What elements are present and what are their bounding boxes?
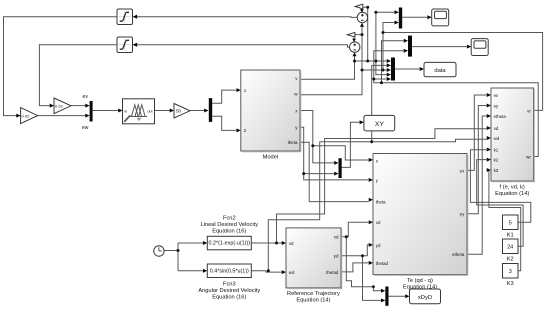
svg-text:ew: ew bbox=[82, 125, 89, 131]
svg-text:0.2*(1-exp(-u(1))): 0.2*(1-exp(-u(1))) bbox=[209, 241, 251, 247]
svg-text:vd: vd bbox=[494, 126, 499, 131]
svg-text:vr: vr bbox=[527, 108, 531, 113]
svg-text:ex: ex bbox=[494, 93, 499, 98]
svg-text:thetad: thetad bbox=[326, 270, 339, 275]
svg-text:wr: wr bbox=[526, 154, 531, 159]
svg-text:yd: yd bbox=[376, 243, 381, 248]
svg-text:K1: K1 bbox=[507, 232, 514, 238]
svg-text:thetad: thetad bbox=[376, 261, 389, 266]
svg-text:xDyD: xDyD bbox=[418, 295, 432, 301]
svg-text:0.02: 0.02 bbox=[22, 113, 31, 118]
svg-text:data: data bbox=[434, 68, 446, 74]
svg-text:XY: XY bbox=[375, 121, 385, 128]
svg-text:50: 50 bbox=[176, 109, 182, 114]
svg-text:Fcn3: Fcn3 bbox=[223, 281, 236, 287]
svg-text:Equation (14): Equation (14) bbox=[296, 297, 330, 303]
svg-text:xd: xd bbox=[334, 235, 339, 240]
svg-text:yd: yd bbox=[334, 254, 339, 259]
svg-text:K2: K2 bbox=[507, 256, 514, 262]
svg-text:ex: ex bbox=[460, 169, 465, 174]
svg-text:xd: xd bbox=[376, 220, 381, 225]
svg-text:K3: K3 bbox=[507, 281, 514, 287]
svg-text:theta: theta bbox=[376, 200, 386, 205]
svg-text:3: 3 bbox=[509, 269, 512, 275]
svg-text:etheta: etheta bbox=[452, 252, 465, 257]
svg-text:Equation (14): Equation (14) bbox=[495, 191, 529, 197]
svg-text:24: 24 bbox=[507, 245, 513, 251]
svg-text:f (e, vd, k): f (e, vd, k) bbox=[500, 184, 525, 190]
svg-text:5: 5 bbox=[509, 221, 512, 227]
svg-text:ey: ey bbox=[460, 212, 465, 217]
svg-text:Equation (16): Equation (16) bbox=[212, 295, 246, 301]
svg-text:vd: vd bbox=[289, 241, 294, 246]
svg-text:Reference Trajectory: Reference Trajectory bbox=[287, 291, 340, 297]
svg-text:theta: theta bbox=[288, 140, 298, 145]
svg-text:k3: k3 bbox=[494, 168, 499, 173]
svg-text:ey: ey bbox=[494, 103, 499, 108]
svg-text:0.02: 0.02 bbox=[55, 104, 64, 109]
svg-text:wd: wd bbox=[494, 136, 500, 141]
svg-text:out: out bbox=[147, 110, 153, 114]
svg-text:Fcn2: Fcn2 bbox=[223, 215, 236, 221]
svg-text:k2: k2 bbox=[494, 157, 499, 162]
svg-text:Equation (16): Equation (16) bbox=[212, 229, 246, 235]
svg-text:Model: Model bbox=[263, 154, 279, 160]
svg-text:in: in bbox=[124, 110, 127, 114]
svg-text:k1: k1 bbox=[494, 147, 499, 152]
svg-text:Te (qd - q): Te (qd - q) bbox=[407, 278, 433, 284]
svg-text:Angular Desired Velocity: Angular Desired Velocity bbox=[198, 288, 260, 294]
svg-text:0.4*sin(0.5*u(1)): 0.4*sin(0.5*u(1)) bbox=[210, 268, 249, 274]
svg-text:ev: ev bbox=[83, 94, 89, 100]
svg-text:Lineal Desired Velocity: Lineal Desired Velocity bbox=[201, 222, 259, 228]
svg-text:wd: wd bbox=[289, 270, 295, 275]
svg-text:etheta: etheta bbox=[494, 114, 507, 119]
